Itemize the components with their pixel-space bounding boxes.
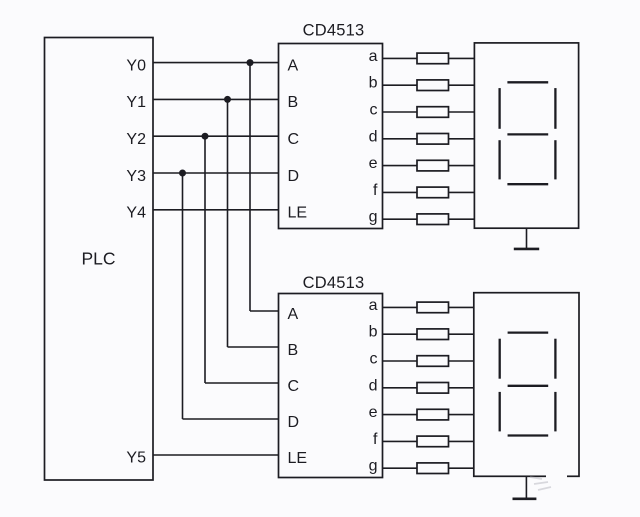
svg-text:Y1: Y1 [126,94,146,111]
svg-text:b: b [369,324,378,341]
svg-text:e: e [369,155,378,172]
svg-text:C: C [288,378,300,395]
svg-text:Y0: Y0 [126,57,146,74]
svg-text:Y4: Y4 [126,205,146,222]
svg-text:PLC: PLC [81,249,115,269]
svg-text:D: D [288,168,300,185]
svg-text:c: c [370,351,378,368]
svg-text:f: f [373,182,378,199]
svg-text:a: a [369,297,378,314]
svg-text:LE: LE [288,205,308,222]
svg-text:CD4513: CD4513 [303,21,365,39]
svg-text:d: d [369,128,378,145]
svg-text:a: a [369,48,378,65]
svg-text:g: g [369,209,378,226]
svg-text:B: B [288,94,299,111]
svg-text:d: d [369,377,378,394]
svg-text:LE: LE [288,450,308,467]
svg-text:g: g [369,458,378,475]
svg-text:Y2: Y2 [126,131,146,148]
svg-text:C: C [288,131,300,148]
svg-text:Y3: Y3 [126,168,146,185]
svg-text:B: B [288,342,299,359]
svg-text:f: f [373,431,378,448]
svg-text:c: c [370,102,378,119]
svg-text:A: A [288,57,299,74]
svg-text:D: D [288,414,300,431]
svg-text:CD4513: CD4513 [303,274,365,292]
svg-text:Y5: Y5 [126,449,146,466]
svg-text:A: A [288,306,299,323]
svg-text:b: b [369,75,378,92]
svg-text:e: e [369,404,378,421]
